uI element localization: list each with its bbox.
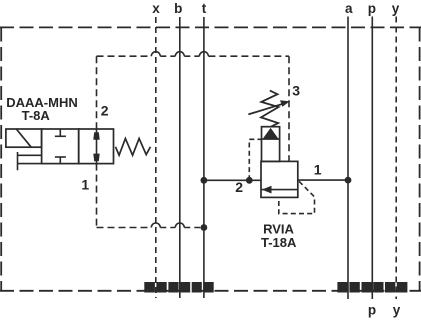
drain boundary left edge upper (dashed, to valve port 2)	[96, 56, 98, 129]
svg-text:p: p	[368, 1, 376, 16]
relief spring (adjustable)	[261, 91, 279, 127]
port line p	[371, 17, 373, 300]
valve position box 1 (blocked)	[42, 129, 79, 164]
border frame bottom edge	[0, 290, 421, 292]
svg-text:y: y	[393, 303, 401, 318]
wire: relief port 2 to t line	[204, 179, 261, 181]
poppet (filled triangle)	[263, 128, 279, 139]
valve drain line lower	[18, 163, 42, 165]
drain boundary left edge lower (dashed, valve port 1 down)	[96, 164, 98, 228]
port line t	[203, 17, 205, 298]
flow path line through box 2	[96, 129, 98, 164]
port line x (pilot, dashed)	[155, 17, 157, 298]
svg-text:x: x	[152, 1, 160, 16]
svg-text:T-8A: T-8A	[22, 108, 51, 123]
svg-text:3: 3	[292, 83, 300, 99]
wire: relief port 1 to a line	[298, 179, 348, 181]
svg-text:a: a	[345, 1, 353, 16]
poppet seat line	[262, 138, 280, 140]
drain loop from port 1 region (dashed)	[279, 181, 315, 213]
junction dot pilot tap at port 2	[246, 177, 253, 184]
junction dot on t at drain boundary	[201, 224, 208, 231]
border frame right edge	[419, 28, 421, 292]
manifold pads left (x b t)	[144, 282, 213, 293]
svg-text:y: y	[392, 1, 400, 16]
relief valve RVIA: pilot poppet box	[262, 127, 280, 162]
svg-text:b: b	[174, 1, 182, 16]
svg-text:2: 2	[235, 179, 243, 195]
relief flow line with arrow to port 2	[262, 186, 298, 194]
svg-text:1: 1	[314, 162, 322, 178]
drain boundary bottom edge (dashed, hops over x, b; ends at t)	[97, 223, 204, 228]
valve drain line upper	[18, 154, 42, 156]
adjustment arrow	[248, 100, 289, 114]
relief valve main box	[261, 161, 298, 197]
flow arrow up	[93, 132, 99, 140]
border frame top edge	[0, 26, 421, 28]
pilot line from port 2 to poppet (dashed)	[249, 139, 261, 180]
port line b	[179, 17, 181, 298]
valve drain bar	[17, 152, 19, 170]
blocked port T top	[55, 129, 66, 136]
junction dot on t at relief port 2	[201, 177, 208, 184]
svg-text:T-18A: T-18A	[261, 235, 297, 250]
drain boundary top edge (dashed, hops over x, b, t)	[97, 52, 290, 57]
drain boundary right edge (dashed, to relief valve port 3)	[288, 56, 290, 161]
port line a	[347, 17, 349, 300]
svg-text:2: 2	[101, 103, 109, 119]
svg-text:1: 1	[81, 177, 89, 193]
junction dot on a at relief port 1	[345, 177, 352, 184]
blocked port T bottom	[55, 157, 66, 164]
solenoid valve DAAA-MHN: solenoid box	[6, 129, 42, 147]
valve return spring	[116, 139, 151, 156]
port line y (pilot, dashed)	[395, 17, 397, 300]
flow arrow down	[93, 154, 99, 162]
svg-text:t: t	[202, 1, 207, 16]
manifold pads right (a p y)	[337, 282, 407, 293]
border frame left edge	[0, 28, 2, 292]
valve position box 2 (flow path)	[79, 129, 114, 164]
svg-text:p: p	[368, 303, 376, 318]
